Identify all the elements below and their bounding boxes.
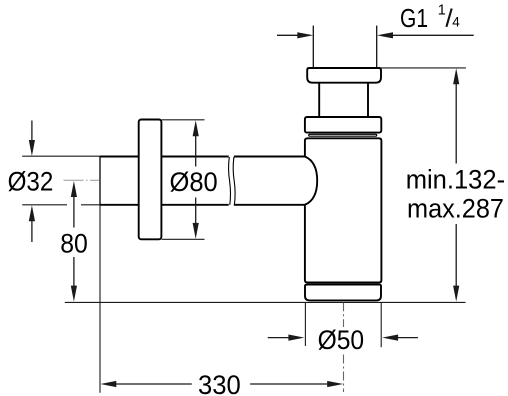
bottle vertical centerline dash-dot — [343, 303, 345, 327]
svg-text:Ø50: Ø50 — [318, 325, 365, 355]
Diameter 32 extension lines left of pipe — [22, 156, 100, 205]
pipe break squiggle right — [233, 157, 235, 205]
svg-text:max.287: max.287 — [407, 193, 504, 223]
Diameter 50 dimension arrows — [268, 335, 418, 341]
extension line from flange top to height dimension — [381, 67, 466, 69]
min.132-max.287 height dimension line with arrows — [453, 68, 459, 301]
svg-text:1: 1 — [438, 2, 446, 18]
bottom cap of bottle — [305, 285, 381, 301]
thin joint ring — [309, 134, 377, 136]
svg-text:4: 4 — [452, 15, 460, 30]
330 dimension left extension line from pipe end — [99, 205, 101, 393]
pipe open left end — [99, 157, 101, 205]
horizontal inlet pipe left segment — [100, 157, 229, 205]
svg-text:80: 80 — [60, 228, 88, 258]
svg-text:min.132-: min.132- — [406, 164, 505, 194]
bottle body with inlet pipe entry bulge on left wall — [305, 138, 382, 282]
wire: G1 1/4 dimension line right segment with left-pointing arrow — [377, 32, 474, 38]
neck between flange and collar — [319, 83, 368, 117]
Diameter 50 extension lines below bottle — [305, 302, 381, 347]
horizontal inlet pipe right segment — [234, 157, 305, 205]
svg-text:Ø80: Ø80 — [170, 167, 218, 197]
Diameter 80 dimension line with arrows — [193, 120, 199, 239]
Diameter 80 extension lines right of escutcheon — [162, 120, 205, 240]
pipe centerline dash-dot — [64, 179, 100, 181]
wire: G1 1/4 dimension line left segment with right-pointing arrow — [277, 32, 313, 38]
80 dimension vertical line with arrows — [71, 181, 77, 302]
extension line at bottle bottom level — [65, 301, 466, 303]
svg-text:Ø32: Ø32 — [8, 167, 54, 197]
threaded inlet pipe stub walls — [313, 26, 376, 68]
pipe break squiggle left — [229, 157, 231, 205]
top flange nut — [307, 68, 381, 83]
svg-text:G1: G1 — [400, 3, 428, 33]
label min.132-max.287 — [406, 164, 505, 223]
collar nut — [305, 117, 381, 133]
330 dimension line with arrows — [100, 381, 343, 387]
svg-text:330: 330 — [198, 370, 241, 396]
label G1 1/4 thread size — [400, 2, 460, 33]
wall flange escutcheon plate — [139, 120, 162, 240]
Diameter 32 arrows — [29, 121, 35, 243]
